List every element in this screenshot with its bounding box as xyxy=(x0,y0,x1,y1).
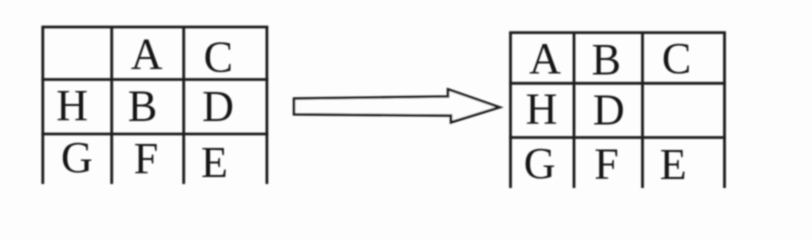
svg-text:G: G xyxy=(524,139,556,188)
svg-text:E: E xyxy=(201,138,228,187)
svg-text:B: B xyxy=(128,82,157,131)
svg-text:H: H xyxy=(56,81,88,130)
svg-text:A: A xyxy=(529,34,561,83)
svg-text:C: C xyxy=(204,33,233,82)
svg-text:B: B xyxy=(592,35,621,84)
svg-text:F: F xyxy=(134,134,158,183)
svg-text:C: C xyxy=(662,34,691,83)
svg-text:A: A xyxy=(131,29,163,78)
svg-text:E: E xyxy=(660,140,687,189)
svg-text:D: D xyxy=(593,85,625,134)
svg-text:D: D xyxy=(202,82,234,131)
svg-text:F: F xyxy=(594,140,618,189)
svg-text:H: H xyxy=(526,85,558,134)
svg-text:G: G xyxy=(61,133,93,182)
